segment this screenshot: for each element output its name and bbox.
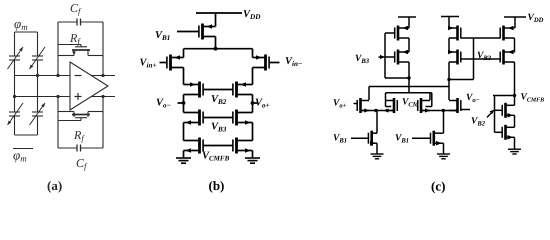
svg-text:Vo+: Vo+ bbox=[255, 98, 270, 110]
svg-text:φm: φm bbox=[13, 148, 27, 164]
svg-text:VB1: VB1 bbox=[333, 134, 347, 145]
svg-text:Rf: Rf bbox=[69, 31, 81, 46]
svg-text:VDD: VDD bbox=[528, 13, 544, 24]
svg-text:VB3: VB3 bbox=[211, 122, 227, 134]
svg-text:VB1: VB1 bbox=[155, 30, 170, 42]
svg-text:(c): (c) bbox=[431, 179, 445, 194]
svg-text:(b): (b) bbox=[209, 178, 225, 193]
svg-text:Vo+: Vo+ bbox=[333, 99, 347, 110]
svg-text:Cf: Cf bbox=[76, 156, 88, 171]
svg-text:Vin+: Vin+ bbox=[140, 58, 157, 70]
svg-text:VCMFB: VCMFB bbox=[521, 93, 545, 104]
svg-text:VB1: VB1 bbox=[395, 134, 409, 145]
svg-text:Vo−: Vo− bbox=[156, 98, 171, 110]
svg-text:VB3: VB3 bbox=[355, 54, 370, 65]
svg-text:VDD: VDD bbox=[243, 9, 261, 21]
svg-text:Rf: Rf bbox=[73, 128, 85, 143]
svg-text:φm: φm bbox=[14, 16, 28, 32]
svg-text:Vo−: Vo− bbox=[466, 93, 480, 104]
svg-text:VCMFB: VCMFB bbox=[202, 151, 230, 163]
svg-text:VB2: VB2 bbox=[211, 94, 227, 106]
svg-text:VB2: VB2 bbox=[471, 117, 486, 128]
svg-text:VCM: VCM bbox=[402, 98, 420, 109]
svg-text:(a): (a) bbox=[47, 178, 62, 193]
svg-text:Cf: Cf bbox=[70, 1, 82, 16]
svg-text:Vin−: Vin− bbox=[285, 56, 302, 68]
svg-text:VB3: VB3 bbox=[477, 51, 492, 62]
